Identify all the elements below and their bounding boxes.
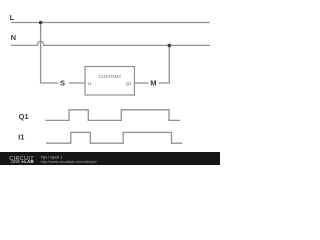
svg-text:LAB: LAB: [24, 159, 34, 164]
svg-text:I1: I1: [18, 133, 24, 142]
svg-text:N: N: [11, 33, 16, 42]
svg-text:Tijn / Opdr 1: Tijn / Opdr 1: [41, 155, 64, 160]
svg-text:Q1: Q1: [19, 112, 29, 121]
svg-text:M: M: [150, 78, 156, 87]
svg-text:http://www.circuitlab.com/c/kr: http://www.circuitlab.com/c/krtpk2: [41, 160, 97, 164]
svg-text:I1: I1: [88, 81, 92, 86]
svg-text:L: L: [10, 13, 15, 22]
svg-text:Q1: Q1: [125, 81, 132, 86]
svg-text:CUSTOM2: CUSTOM2: [99, 74, 122, 79]
svg-text:S: S: [60, 79, 65, 88]
